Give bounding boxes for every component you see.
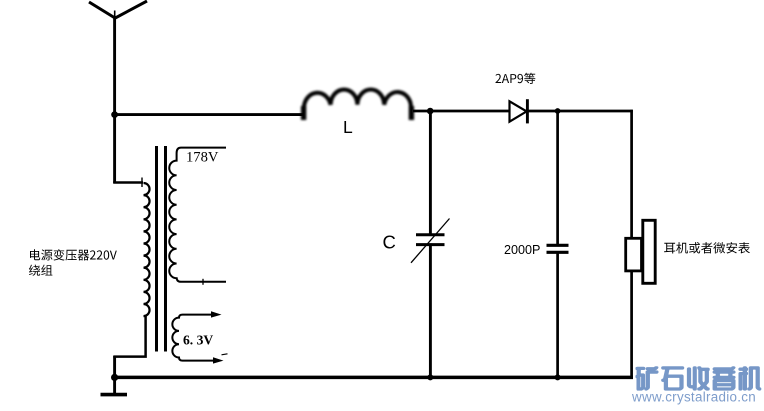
svg-text:www.crystalradio.cn: www.crystalradio.cn	[631, 390, 756, 405]
junction node G	[111, 374, 118, 381]
earphone small box	[626, 238, 642, 271]
wire bottom bus	[113, 376, 633, 380]
label 电源变压器220V	[30, 249, 117, 260]
junction node F	[555, 374, 561, 380]
ground	[101, 393, 128, 397]
label 绕组	[29, 265, 53, 276]
junction node E	[427, 374, 433, 380]
svg-text:178V: 178V	[186, 150, 219, 166]
label 耳机或者微安表	[664, 242, 750, 253]
earphone large box	[643, 220, 655, 283]
watermark 矿石收音机	[636, 367, 761, 390]
arrow through variable capacitor	[411, 219, 450, 263]
wire left down to ground	[113, 356, 116, 394]
diode 2AP9	[510, 99, 528, 123]
transformer T primary winding	[144, 183, 150, 316]
wire antenna vertical	[113, 16, 116, 183]
wire 2000P branch	[556, 111, 559, 378]
label 2AP9等	[496, 73, 536, 84]
wire top horizontal to L	[113, 113, 304, 116]
capacitor C variable plates	[416, 235, 445, 245]
tick near 6.3V bottom arrow	[222, 354, 228, 355]
tick on 178V bottom lead	[202, 279, 204, 285]
wire primary bottom lead	[113, 315, 145, 357]
wire stub to primary	[113, 178, 143, 188]
transformer T secondary 178V winding	[169, 148, 226, 282]
svg-text:L: L	[343, 117, 353, 137]
antenna	[89, 1, 147, 19]
junction node A	[111, 111, 118, 118]
transformer core	[157, 146, 166, 352]
wire top right horizontal	[413, 110, 633, 113]
junction node D	[555, 108, 561, 114]
transformer T secondary 6.3V winding	[172, 315, 216, 361]
arrow 6.3V bottom lead	[213, 357, 224, 363]
svg-text:2000P: 2000P	[504, 243, 540, 257]
arrow 6.3V top lead	[211, 311, 222, 317]
svg-text:C: C	[383, 232, 396, 253]
wire right branch	[630, 110, 633, 379]
capacitor 2000P plates	[547, 245, 569, 252]
inductor L	[304, 89, 412, 120]
junction node B	[427, 108, 434, 115]
wire variable-cap branch	[429, 111, 432, 378]
svg-text:6. 3V: 6. 3V	[183, 333, 213, 348]
